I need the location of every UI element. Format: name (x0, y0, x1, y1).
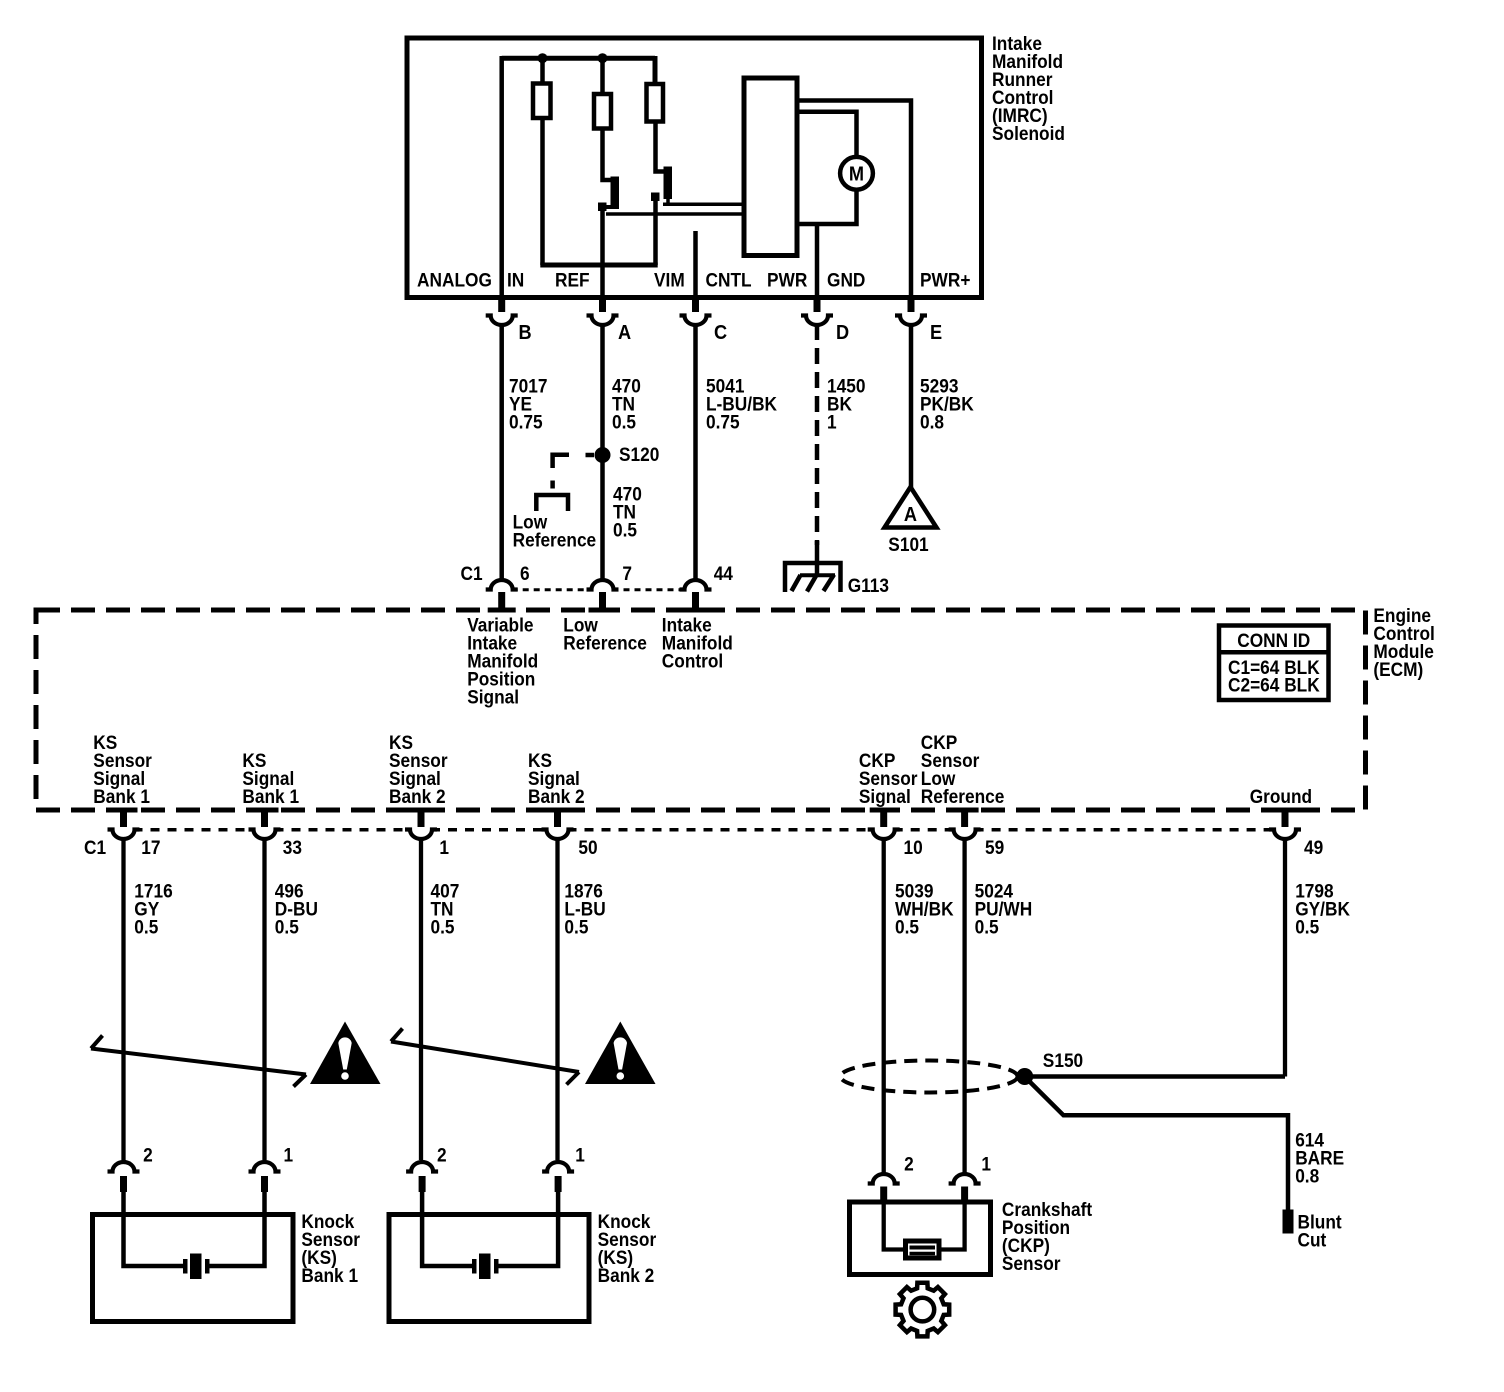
wire 1876 L-BU (pin 50) (555, 838, 559, 1160)
pin 10 (880, 811, 887, 828)
node: junction top bus / R1 (538, 53, 548, 63)
ECM box (dashed) (36, 610, 1366, 810)
pin C (692, 297, 699, 312)
wire 5293 PK/BK (pin E) (909, 324, 914, 488)
transistor Q1 (drives VIM) (603, 129, 613, 181)
svg-text:7: 7 (622, 563, 632, 584)
svg-text:0.5: 0.5 (612, 412, 636, 433)
svg-text:0.5: 0.5 (895, 917, 919, 938)
svg-text:50: 50 (578, 837, 597, 858)
svg-text:1: 1 (827, 412, 837, 433)
svg-text:(ECM): (ECM) (1373, 659, 1423, 680)
svg-text:Bank 2: Bank 2 (389, 786, 446, 807)
svg-text:S120: S120 (619, 444, 659, 465)
svg-text:0.75: 0.75 (509, 412, 543, 433)
pin 44 (680, 580, 712, 589)
wire 496 D-BU (pin 33) (262, 838, 266, 1160)
caution triangle 1 (310, 1022, 381, 1085)
IMRC solenoid box (407, 38, 982, 298)
motor M (840, 157, 873, 190)
svg-text:Control: Control (662, 651, 723, 672)
svg-text:Signal: Signal (467, 687, 519, 708)
wire: GND pin stub (815, 222, 820, 311)
CKP pickup element (906, 1241, 940, 1258)
svg-text:10: 10 (904, 837, 923, 858)
knock sensor box (93, 1215, 294, 1322)
svg-text:Bank 1: Bank 1 (301, 1265, 358, 1286)
twisted-pair pointer 1 (91, 1049, 306, 1075)
splice S120 (595, 447, 611, 463)
wire: PWR+ from module to pin E (795, 101, 911, 312)
pin 33 (261, 811, 268, 828)
wire: R3 top lead (corner from bus) (653, 56, 658, 84)
wire 1716 GY (pin 17) (121, 838, 125, 1160)
wire 5039 WH/BK (pin 10) (882, 838, 886, 1173)
pin E (908, 297, 915, 312)
svg-text:1: 1 (439, 837, 449, 858)
svg-text:2: 2 (904, 1154, 914, 1175)
svg-text:C2=64 BLK: C2=64 BLK (1228, 675, 1320, 696)
svg-text:Bank 1: Bank 1 (93, 786, 150, 807)
svg-text:Reference: Reference (513, 530, 597, 551)
pin 7 (587, 580, 619, 590)
svg-text:GND: GND (827, 270, 865, 291)
svg-text:0.5: 0.5 (564, 917, 588, 938)
wire 7017 YE (pin B) (499, 324, 504, 581)
pin 1 (418, 811, 425, 828)
wires inside sensor (124, 1190, 184, 1266)
wires inside CKP sensor (884, 1201, 906, 1250)
knock sensor Bank 1 pins (108, 1162, 140, 1172)
resistor R2 (594, 94, 611, 129)
knock sensor Bank 2 pins (406, 1162, 438, 1172)
CKP sensor pins (868, 1174, 900, 1184)
svg-text:6: 6 (520, 563, 530, 584)
svg-text:VIM: VIM (654, 270, 685, 291)
wire: Q2 source vertical to bottom bus (653, 199, 658, 265)
pin B (498, 297, 505, 312)
CKP sensor box (850, 1202, 991, 1275)
wire: R2 top lead (600, 58, 605, 94)
wire 1450 BK (pin D, dashed) (815, 324, 820, 545)
svg-text:REF: REF (555, 270, 590, 291)
knock sensor box (389, 1215, 589, 1322)
wire: R1 top lead (540, 58, 545, 83)
svg-text:Sensor: Sensor (1002, 1253, 1061, 1274)
module block inside IMRC (744, 78, 797, 256)
splice S150 (1016, 1068, 1033, 1085)
svg-text:IN: IN (507, 270, 524, 291)
svg-text:S150: S150 (1043, 1050, 1083, 1071)
shield ellipse (drain wire) (841, 1061, 1018, 1093)
pin D (814, 297, 821, 312)
wire: top bus inside IMRC (502, 56, 655, 61)
svg-text:0.5: 0.5 (275, 917, 299, 938)
wires inside sensor (422, 1190, 472, 1266)
svg-text:Bank 1: Bank 1 (242, 786, 299, 807)
svg-text:1: 1 (284, 1145, 294, 1166)
svg-text:Reference: Reference (921, 786, 1005, 807)
wire 1798 GY/BK (pin 49) (1283, 838, 1287, 1077)
svg-text:Signal: Signal (859, 786, 911, 807)
svg-text:Bank 2: Bank 2 (598, 1265, 655, 1286)
wire: S150 to pin 49 (1025, 1074, 1285, 1079)
reluctor gear icon (896, 1283, 950, 1337)
svg-text:0.5: 0.5 (975, 917, 999, 938)
wire: motor bottom to module (797, 190, 857, 224)
svg-text:Bank 2: Bank 2 (528, 786, 585, 807)
svg-text:Solenoid: Solenoid (992, 123, 1065, 144)
branch fork symbol (536, 495, 568, 511)
pin 49 (1282, 811, 1289, 828)
svg-text:1: 1 (981, 1154, 991, 1175)
wire 5024 PU/WH (pin 59) (962, 838, 966, 1173)
svg-text:0.5: 0.5 (431, 917, 455, 938)
svg-text:0.8: 0.8 (920, 412, 944, 433)
wire: Q2 bottom contact to module (upper pair line) (663, 202, 744, 206)
svg-text:59: 59 (985, 837, 1004, 858)
caution triangle 2 (585, 1022, 656, 1085)
piezo element (472, 1259, 477, 1274)
pin 50 (554, 811, 561, 828)
pin 6 (486, 580, 518, 590)
svg-text:49: 49 (1304, 837, 1323, 858)
svg-text:0.5: 0.5 (134, 917, 158, 938)
twisted-pair pointer 2 (391, 1042, 579, 1073)
wire: Q1 source to ECM-side bus (lower pair line) (606, 212, 744, 216)
svg-text:17: 17 (141, 837, 160, 858)
svg-text:C: C (714, 322, 727, 344)
svg-text:2: 2 (143, 1145, 153, 1166)
svg-text:C1: C1 (461, 563, 483, 584)
svg-text:E: E (930, 322, 942, 344)
wire: REF/pin A vertical below Q1 (600, 209, 605, 311)
CONN ID table (1219, 626, 1329, 701)
resistor R3 (647, 84, 664, 122)
splice pack S101 (triangle A) (885, 487, 937, 528)
svg-text:44: 44 (714, 563, 733, 584)
piezo element (183, 1259, 188, 1274)
svg-text:C1: C1 (84, 837, 106, 858)
wire: CNTL pin stub (693, 231, 698, 311)
pin 17 (120, 811, 127, 828)
svg-text:M: M (849, 164, 864, 186)
node: junction top bus / R2 (598, 53, 608, 63)
svg-text:A: A (618, 322, 631, 344)
svg-text:A: A (904, 504, 917, 526)
svg-text:ANALOG: ANALOG (417, 270, 492, 291)
pin A (599, 297, 606, 312)
svg-text:0.5: 0.5 (613, 520, 637, 541)
svg-text:G113: G113 (848, 575, 889, 596)
svg-text:0.75: 0.75 (706, 412, 740, 433)
connector C1 bottom pins (134, 828, 255, 832)
pin 59 (961, 811, 968, 828)
wire 5041 L-BU/BK (pin C) (693, 324, 698, 581)
svg-text:1: 1 (575, 1145, 585, 1166)
svg-text:Cut: Cut (1298, 1230, 1327, 1251)
svg-text:2: 2 (437, 1145, 447, 1166)
svg-text:B: B (519, 322, 532, 344)
wire: drain 614 BARE to blunt cut (1026, 1078, 1288, 1210)
svg-text:S101: S101 (888, 534, 928, 555)
svg-text:CONN ID: CONN ID (1237, 630, 1310, 651)
wire 470 TN (pin A) (600, 324, 605, 581)
transistor Q2 (656, 122, 666, 172)
blunt cut terminal (1283, 1210, 1294, 1234)
resistor R1 (533, 84, 551, 119)
connector C1 top pins 6 7 44 (512, 588, 593, 591)
svg-text:PWR+: PWR+ (920, 270, 970, 291)
wire: IN pin vertical (499, 56, 504, 311)
wire: module to motor top (795, 112, 857, 156)
ground G113 (785, 563, 841, 592)
svg-text:PWR: PWR (767, 270, 807, 291)
wire: S120 branch to Low Reference (586, 453, 595, 458)
svg-text:D: D (836, 322, 849, 344)
svg-text:33: 33 (283, 837, 302, 858)
svg-text:Ground: Ground (1250, 786, 1312, 807)
wire 407 TN (pin 1) (419, 838, 423, 1160)
wire: R1 bottom lead down to bottom bus (540, 118, 545, 265)
svg-text:0.5: 0.5 (1295, 917, 1319, 938)
wire: bottom bus in IMRC (540, 263, 657, 268)
svg-text:CNTL: CNTL (706, 270, 752, 291)
svg-text:Reference: Reference (563, 633, 647, 654)
svg-text:0.8: 0.8 (1295, 1166, 1319, 1187)
